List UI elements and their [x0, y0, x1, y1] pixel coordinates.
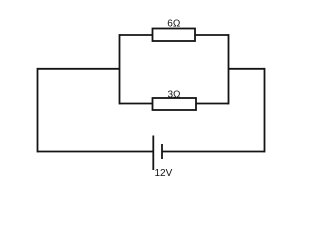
- svg-text:6Ω: 6Ω: [167, 18, 181, 29]
- svg-text:12V: 12V: [155, 168, 173, 179]
- svg-text:3Ω: 3Ω: [168, 90, 182, 101]
